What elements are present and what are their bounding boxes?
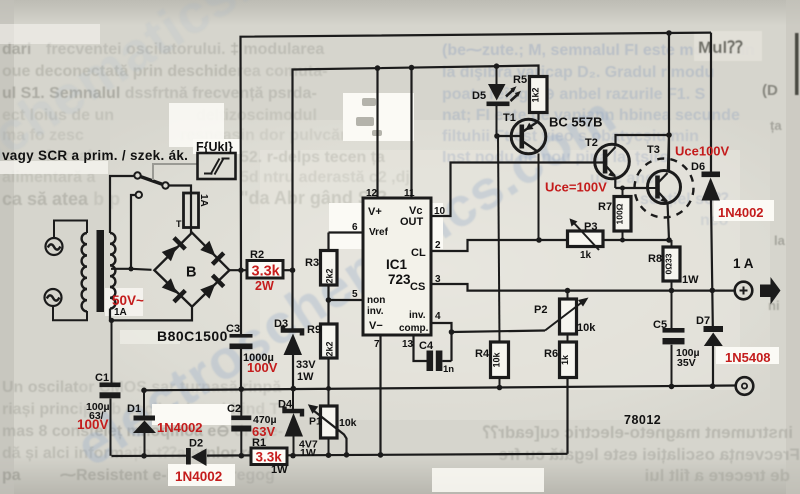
node R9 bottom / P1 top: [326, 386, 331, 391]
svg-text:P1: P1: [309, 416, 322, 428]
diode D1 1N4002: [133, 390, 156, 456]
svg-text:10: 10: [434, 206, 446, 217]
wire T2 emitter to T3 base: [615, 187, 648, 189]
svg-text:3.3k: 3.3k: [256, 450, 283, 465]
svg-text:la: la: [774, 233, 786, 248]
svg-text:ca să atea b p: ca să atea b p: [2, 189, 120, 209]
svg-text:11: 11: [404, 188, 415, 199]
bridge diode top-left: [161, 236, 187, 262]
svg-text:10k: 10k: [492, 352, 502, 368]
node C1 top junction: [109, 318, 114, 323]
wire fuse to bridge top: [190, 228, 192, 234]
svg-text:V−: V−: [369, 320, 383, 332]
resistor R5 1k2: [530, 77, 548, 120]
node R7 top on T3 base wire: [620, 186, 625, 191]
node Vc column: [409, 65, 415, 71]
regulated rail B: [293, 66, 539, 271]
node D1 bottom: [141, 453, 147, 459]
node R7 bottom: [620, 238, 625, 243]
faint magazine print, top-right (blue-gray): [442, 42, 755, 229]
node pin4/C4: [449, 329, 455, 335]
F(UkI) threshold box: [198, 153, 236, 179]
wire R7 bottom to CL wire: [622, 231, 624, 240]
svg-text:100V: 100V: [77, 417, 109, 432]
wire pin4 node to P2 wiper: [452, 331, 546, 333]
capacitor C2: [231, 389, 251, 456]
svg-text:10k: 10k: [577, 322, 596, 334]
svg-text:2k2: 2k2: [325, 341, 335, 356]
svg-text:6: 6: [352, 222, 358, 233]
LED D5: [487, 66, 522, 136]
svg-text:T1: T1: [503, 112, 516, 124]
resistor R2 3.3k (red box): [247, 261, 283, 279]
trimmer P1 10k: [308, 389, 347, 456]
svg-text:Vref: Vref: [369, 227, 389, 238]
bridge diode bottom-right: [199, 274, 225, 300]
node D7 bottom: [710, 383, 716, 389]
pin2 CL wire: [431, 240, 568, 251]
trimmer P3 1k: [568, 218, 670, 250]
svg-text:R6: R6: [544, 348, 558, 360]
node R2 right: [290, 267, 296, 273]
transistor T2: [595, 135, 669, 188]
diode D7 1N5408: [704, 290, 724, 386]
svg-text:C2: C2: [227, 403, 241, 415]
svg-text:vagy SCR a prim. / szek. ák.: vagy SCR a prim. / szek. ák.: [2, 148, 188, 163]
node C3 bottom: [239, 386, 245, 392]
resistor R9 2k2: [321, 300, 338, 388]
svg-text:D6: D6: [691, 161, 705, 173]
svg-text:3.3k: 3.3k: [252, 264, 281, 280]
negative aux rail (bottom): [112, 454, 568, 456]
svg-text:1W: 1W: [271, 464, 288, 476]
svg-text:D2: D2: [189, 438, 203, 450]
zener D4 4V7: [285, 389, 304, 456]
svg-text:T3: T3: [647, 144, 660, 156]
right-edge artifacts: [762, 33, 799, 313]
capacitor C3: [230, 270, 253, 389]
svg-text:100Ω: 100Ω: [615, 203, 625, 224]
svg-text:1 A: 1 A: [733, 256, 754, 271]
node T1 emitter on CL wire: [536, 237, 542, 243]
wire C4 up to pin4 node: [450, 332, 452, 361]
bridge diode top-right: [199, 240, 225, 266]
svg-text:5: 5: [352, 289, 358, 300]
node pin7 bottom: [378, 452, 384, 458]
bridge rectifier B diamond: [154, 233, 229, 307]
wire bridge plus to R2: [229, 269, 247, 271]
wire secondary top to switch: [110, 176, 134, 233]
svg-text:1N4002: 1N4002: [718, 205, 764, 220]
svg-text:33V: 33V: [296, 359, 316, 371]
zener D3 33V: [283, 270, 302, 388]
svg-text:1W: 1W: [300, 447, 316, 459]
resistor R7 100ohm: [614, 188, 631, 231]
svg-text:P2: P2: [534, 304, 547, 316]
svg-text:D4: D4: [278, 399, 293, 411]
svg-text:B: B: [186, 265, 196, 281]
svg-text:C1: C1: [95, 372, 109, 384]
svg-text:35V: 35V: [677, 357, 696, 369]
svg-text:723: 723: [388, 272, 411, 287]
node C2 bottom: [239, 453, 245, 459]
node P1 bottom: [326, 452, 332, 458]
wire G2 to primary bottom: [53, 306, 87, 320]
wire pin12 column: [376, 68, 378, 198]
svg-text:13: 13: [402, 339, 414, 350]
node D4 bottom: [290, 453, 296, 459]
svg-text:R1: R1: [252, 437, 266, 449]
svg-text:R7: R7: [598, 201, 612, 213]
svg-text:100V: 100V: [247, 360, 278, 375]
pin4 inv wire: [431, 323, 452, 332]
node P2 top: [565, 288, 571, 294]
node T3 emitter / P3 right: [666, 237, 672, 243]
svg-text:R2: R2: [250, 249, 264, 261]
svg-text:1W: 1W: [297, 371, 314, 383]
node D6/D7 column: [710, 288, 716, 294]
svg-text:D7: D7: [696, 315, 710, 327]
svg-text:de trecere a filt lui: de trecere a filt lui: [645, 466, 791, 485]
svg-text:F{UkI}: F{UkI}: [196, 140, 233, 154]
svg-text:2: 2: [435, 240, 441, 251]
svg-text:1n: 1n: [443, 364, 454, 375]
output arrow: [760, 277, 781, 305]
svg-text:78012: 78012: [624, 413, 661, 427]
wire R2 to rail B node: [283, 269, 293, 271]
node D5 column: [494, 63, 500, 69]
svg-text:1A: 1A: [198, 194, 209, 207]
svg-text:B80C1500: B80C1500: [157, 328, 228, 344]
svg-text:OUT: OUT: [400, 216, 424, 228]
wire switch to fuse: [169, 186, 191, 194]
faint mirrored bleed-through, bottom-right: [482, 423, 800, 485]
resistor R1 3.3k (red box): [251, 448, 287, 465]
node T3 collector on top rail: [666, 30, 672, 36]
potentiometer P2 10k: [545, 291, 589, 342]
svg-text:C3: C3: [226, 323, 240, 335]
switch S1 contacts: [134, 172, 168, 198]
svg-text:inv.: inv.: [409, 310, 426, 321]
svg-text:R3: R3: [305, 257, 319, 269]
svg-text:T: T: [176, 219, 182, 229]
svg-text:non: non: [367, 295, 385, 306]
svg-text:ța: ța: [770, 118, 782, 133]
IC1 723 regulator box: [363, 198, 431, 335]
svg-text:1k: 1k: [560, 354, 570, 365]
svg-text:Mul⁇: Mul⁇: [698, 38, 743, 57]
wire Vref pin6: [329, 231, 364, 233]
wire pin11 column: [410, 68, 412, 198]
main ground mid rail: [144, 386, 736, 391]
node R3/R9 pin5: [326, 297, 332, 303]
node R4 bottom: [497, 385, 503, 391]
svg-text:50V~: 50V~: [112, 293, 144, 308]
resistor R3 2k2: [321, 233, 338, 301]
svg-text:1N4002: 1N4002: [175, 469, 222, 484]
svg-text:CS: CS: [410, 281, 425, 293]
svg-text:1k: 1k: [580, 250, 592, 261]
transformer TR primary winding: [82, 233, 87, 311]
node tap junction: [128, 266, 133, 271]
pin10 OUT wire: [431, 163, 606, 217]
transformer TR core: [97, 230, 105, 312]
fuse F 1A: [184, 193, 199, 228]
svg-text:2k2: 2k2: [325, 268, 335, 283]
svg-text:10k: 10k: [339, 417, 357, 429]
svg-text:IC1: IC1: [386, 257, 408, 272]
svg-text:T2: T2: [585, 137, 598, 149]
transistor T1 BC557B: [497, 113, 546, 241]
resistor R4 10k: [491, 342, 509, 388]
AC source G1 (upper): [46, 238, 63, 255]
node D1 top: [141, 388, 147, 394]
wire T3 collector column from top rail: [668, 33, 670, 172]
capacitor C5: [663, 291, 685, 387]
pin3 CS wire / output sense line: [431, 284, 735, 291]
bridge diode bottom-left: [161, 277, 187, 303]
wire G1 to primary top: [54, 221, 87, 239]
svg-text:1k2: 1k2: [531, 87, 541, 102]
capacitor C1: [100, 320, 121, 455]
output terminal zero: [736, 377, 754, 395]
svg-text:3: 3: [435, 274, 441, 285]
svg-text:Uce=100V: Uce=100V: [545, 180, 607, 195]
watermark electroschematics.com: [0, 0, 626, 478]
svg-text:(D: (D: [762, 82, 778, 99]
svg-text:P3: P3: [584, 221, 597, 233]
svg-text:BC 557B: BC 557B: [549, 115, 602, 130]
svg-text:7: 7: [374, 339, 380, 350]
capacitor C4 1n: [427, 351, 452, 372]
svg-text:1W: 1W: [682, 274, 699, 286]
node R8 bottom / C5 top: [669, 288, 675, 294]
svg-text:R4: R4: [475, 348, 490, 360]
svg-text:comp.: comp.: [399, 323, 429, 334]
top-right dark patch text: [694, 31, 762, 61]
wire pin5 non-inv: [329, 299, 364, 301]
node bridge plus / raw rail: [238, 267, 244, 273]
switch S1 blade: [141, 177, 163, 185]
transistor T3 (power, dashed case): [635, 135, 694, 240]
raw positive rail (top): [241, 33, 712, 271]
node V+ column: [375, 65, 381, 71]
svg-text:2W: 2W: [255, 279, 274, 293]
diode D2 1N4002 (series in rail): [186, 448, 207, 466]
node D3 bottom on mid rail: [291, 386, 297, 392]
transformer TR secondary winding: [110, 233, 115, 309]
svg-text:R5: R5: [513, 74, 527, 86]
svg-text:12: 12: [366, 188, 378, 199]
faint magazine print, bottom-left (gray): [2, 379, 299, 484]
svg-text:4: 4: [435, 311, 441, 322]
svg-text:R8: R8: [648, 253, 662, 265]
svg-text:C4: C4: [419, 340, 434, 352]
svg-text:52. r-delps tecen ța: 52. r-delps tecen ța: [240, 149, 385, 166]
svg-text:R9: R9: [307, 324, 321, 336]
AC source G2 (lower): [45, 289, 62, 306]
pin numbers: [352, 188, 446, 350]
node D5 / T1 base: [494, 133, 500, 139]
wire secondary tap to switch lower contact: [111, 195, 135, 269]
svg-text:0Ω33: 0Ω33: [664, 253, 674, 274]
wire secondary bottom to bridge minus: [110, 308, 192, 321]
pin7 V- column to negative rail: [379, 335, 381, 455]
wire tap to bridge left vertex: [131, 269, 152, 270]
wire D5 node down to R4: [498, 136, 500, 342]
svg-text:Uce100V: Uce100V: [675, 144, 730, 159]
pin13 wire to C4: [414, 335, 427, 361]
node P1 wiper tail: [344, 452, 350, 458]
svg-text:CL: CL: [411, 247, 426, 259]
svg-text:C5: C5: [653, 319, 667, 331]
control link wire (gray) to F box: [153, 164, 198, 180]
svg-text:V+: V+: [368, 206, 382, 218]
svg-text:1A: 1A: [114, 307, 127, 318]
svg-text:1N5408: 1N5408: [725, 350, 771, 365]
svg-text:ni: ni: [768, 298, 780, 313]
faint magazine print, top-left (gray): [2, 41, 410, 209]
diode D6 1N4002: [702, 33, 721, 291]
svg-text:1N4002: 1N4002: [157, 420, 203, 435]
svg-text:inv.: inv.: [367, 306, 384, 317]
output terminal plus: [735, 282, 753, 300]
svg-text:D3: D3: [274, 318, 288, 330]
svg-text:D1: D1: [127, 403, 141, 415]
svg-text:D5: D5: [472, 90, 486, 102]
node C5 bottom: [669, 384, 675, 390]
resistor R6 1k: [560, 342, 577, 454]
node T2 collector column: [666, 132, 672, 138]
resistor R8 0R33: [663, 240, 680, 291]
